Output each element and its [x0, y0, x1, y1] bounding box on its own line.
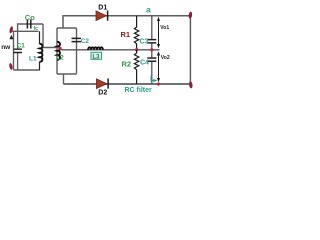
inductor L1: [39, 31, 41, 44]
diode D2: [97, 79, 107, 89]
wire bottom rail: [64, 83, 191, 85]
wire source top: [12, 30, 38, 32]
svg-text:L2: L2: [56, 54, 64, 61]
svg-text:L3: L3: [93, 55, 101, 61]
wire top rail: [63, 16, 190, 28]
svg-text:Co: Co: [25, 13, 35, 22]
corner blob bottom right: [189, 81, 193, 89]
wire right rail: [189, 16, 191, 84]
capacitor C3: [151, 16, 153, 50]
RC filter callout arrow: [151, 76, 155, 81]
svg-text:D2: D2: [98, 90, 107, 97]
wire source vertical: [13, 31, 15, 70]
arrow Vo2: [158, 54, 160, 81]
svg-text:a: a: [146, 4, 151, 14]
svg-text:C1: C1: [17, 43, 26, 50]
capacitor C4: [151, 50, 153, 84]
resistor R2: [134, 50, 138, 84]
input current arrow: [10, 35, 14, 40]
svg-text:C4: C4: [140, 59, 149, 66]
svg-text:Vo2: Vo2: [161, 55, 170, 61]
wire center rail: [60, 48, 160, 49]
resistor R1: [134, 16, 138, 50]
terminal blob bottom left: [9, 63, 13, 70]
diode D1: [96, 11, 106, 21]
capacitor C0 plates: [27, 20, 30, 29]
node dot C junction: [150, 48, 153, 51]
inductor L2: [57, 42, 60, 60]
node dot R junction: [135, 48, 138, 51]
inductor L3: [88, 47, 103, 50]
arrow Vo1: [158, 19, 160, 46]
node dot bottom: [157, 82, 160, 85]
wire secondary loop: [57, 28, 77, 84]
svg-text:C3: C3: [140, 38, 149, 45]
terminal blob top left: [9, 26, 14, 34]
svg-text:C2: C2: [81, 38, 90, 45]
svg-text:R1: R1: [121, 30, 131, 39]
wire C0 branch: [18, 24, 57, 48]
svg-text:RC filter: RC filter: [125, 87, 153, 94]
svg-text:nw: nw: [1, 44, 11, 51]
wire bottom left rail: [14, 69, 41, 71]
svg-text:Vo1: Vo1: [160, 25, 169, 31]
capacitor C2 plates: [72, 38, 82, 41]
svg-text:fc: fc: [34, 26, 39, 32]
capacitor C1: [17, 31, 19, 70]
node dot L2 tap: [58, 47, 61, 50]
svg-text:L1: L1: [29, 55, 37, 62]
corner blob top right: [188, 11, 192, 19]
svg-text:R2: R2: [122, 59, 132, 68]
svg-text:D1: D1: [98, 5, 107, 12]
label L3 box: [91, 52, 102, 59]
